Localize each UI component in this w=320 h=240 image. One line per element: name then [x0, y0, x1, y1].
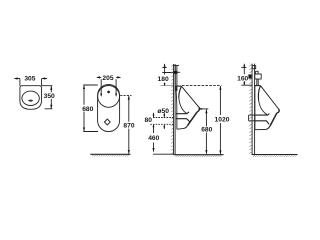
dim 160 ticks [241, 67, 252, 85]
urinal neck right side [179, 87, 181, 99]
urinal bottom edge [177, 127, 184, 130]
svg-text:870: 870 [123, 123, 134, 130]
dim 205 arrows outward [97, 76, 120, 78]
urinal rim diagonal view4 [261, 86, 279, 109]
pipe nut [174, 71, 177, 74]
dim 305 arrows outward [15, 78, 47, 80]
dim 350 line with arrows [50, 86, 52, 109]
urinal back edge view4 [254, 86, 256, 130]
dim 1020 line [219, 86, 221, 154]
floor hatch view 4 [253, 155, 297, 157]
outlet spigot top bar [176, 112, 189, 114]
urinal inner bowl curve view4 [259, 100, 268, 115]
fitting to collar lines [257, 79, 258, 85]
urinal lip curl view4 [277, 109, 279, 113]
capsule outline [98, 84, 120, 131]
floor hatch view 2 [92, 155, 129, 157]
svg-text:160: 160 [237, 75, 248, 82]
dim o50 leader [163, 113, 165, 117]
dim 80 arrows at x=153.5 [153, 113, 155, 130]
inlet fitting box [255, 74, 261, 79]
urinal bottom diagonal view4 [270, 113, 277, 126]
dim 680 right ext with left arrow [200, 108, 209, 110]
outlet spigot top bar view4 [254, 114, 269, 116]
dim 350 extension lines [42, 86, 53, 109]
inlet stub [256, 71, 259, 74]
pipe top tick [173, 64, 179, 66]
svg-text:460: 460 [148, 135, 159, 142]
urinal collar top [176, 85, 182, 87]
urinal body plan outline [20, 86, 42, 110]
floor line view 3 [174, 154, 224, 156]
inlet pipe [175, 65, 177, 91]
urinal foot curl [184, 125, 187, 128]
svg-text:680: 680 [201, 127, 212, 134]
floor line view 4 [252, 154, 298, 156]
wall hatch [171, 65, 173, 154]
dim 180 ticks [162, 68, 171, 73]
dim 460 line [153, 130, 155, 152]
urinal bottom diagonal [188, 112, 198, 126]
bowl rim circle [98, 86, 120, 108]
urinal rim diagonal [182, 86, 199, 107]
spigot axis dashes [150, 118, 173, 125]
dim 1020 top ext dashed [182, 84, 222, 86]
dim 870 line [128, 96, 130, 154]
svg-text:350: 350 [44, 93, 55, 100]
dim 180 line [164, 64, 166, 86]
dim 460 bottom ext [153, 153, 173, 155]
urinal collar top view4 [254, 85, 260, 87]
urinal foot curl view4 [266, 126, 270, 129]
outlet spigot through wall view4 [249, 115, 254, 121]
dim 205 extension lines into bowl with down arrows [101, 79, 116, 95]
svg-text:ø50: ø50 [157, 108, 169, 115]
wall hatch [249, 64, 252, 153]
outlet diamond [104, 119, 110, 125]
wall line double [252, 64, 255, 155]
extra up arrow at x=164.3 [163, 125, 165, 129]
dim 680 left line [83, 85, 85, 131]
wall inlet box [252, 66, 255, 69]
dim 160 line [243, 64, 245, 85]
urinal neck right side view4 [258, 86, 260, 100]
drain lens [29, 100, 33, 101]
svg-text:680: 680 [82, 106, 93, 113]
outlet spigot bottom bar [176, 119, 190, 123]
supply elbow block [248, 74, 251, 78]
dim 680 right line [205, 109, 207, 153]
svg-text:80: 80 [144, 117, 152, 124]
inlet hole dot [107, 91, 110, 94]
wall line double [174, 64, 176, 155]
dim 305 extension lines [20, 79, 42, 86]
svg-text:180: 180 [158, 76, 169, 83]
urinal top ext tick [161, 84, 174, 86]
outlet spigot bottom bar view4 [254, 121, 269, 124]
svg-text:205: 205 [102, 75, 113, 82]
dim 870 right: top extension dash [120, 95, 131, 97]
svg-text:305: 305 [24, 76, 35, 83]
dim 680 left: extension lines [83, 85, 98, 132]
urinal back edge [176, 86, 177, 129]
urinal bottom edge view4 [254, 129, 266, 131]
urinal lip curl [197, 107, 199, 112]
floor line view 2 [90, 153, 130, 155]
svg-text:1020: 1020 [215, 116, 230, 123]
basin ellipse [22, 91, 39, 105]
urinal inner bowl back curve [179, 99, 187, 114]
pipe flange [172, 71, 181, 73]
floor hatch view 3 [176, 155, 222, 157]
